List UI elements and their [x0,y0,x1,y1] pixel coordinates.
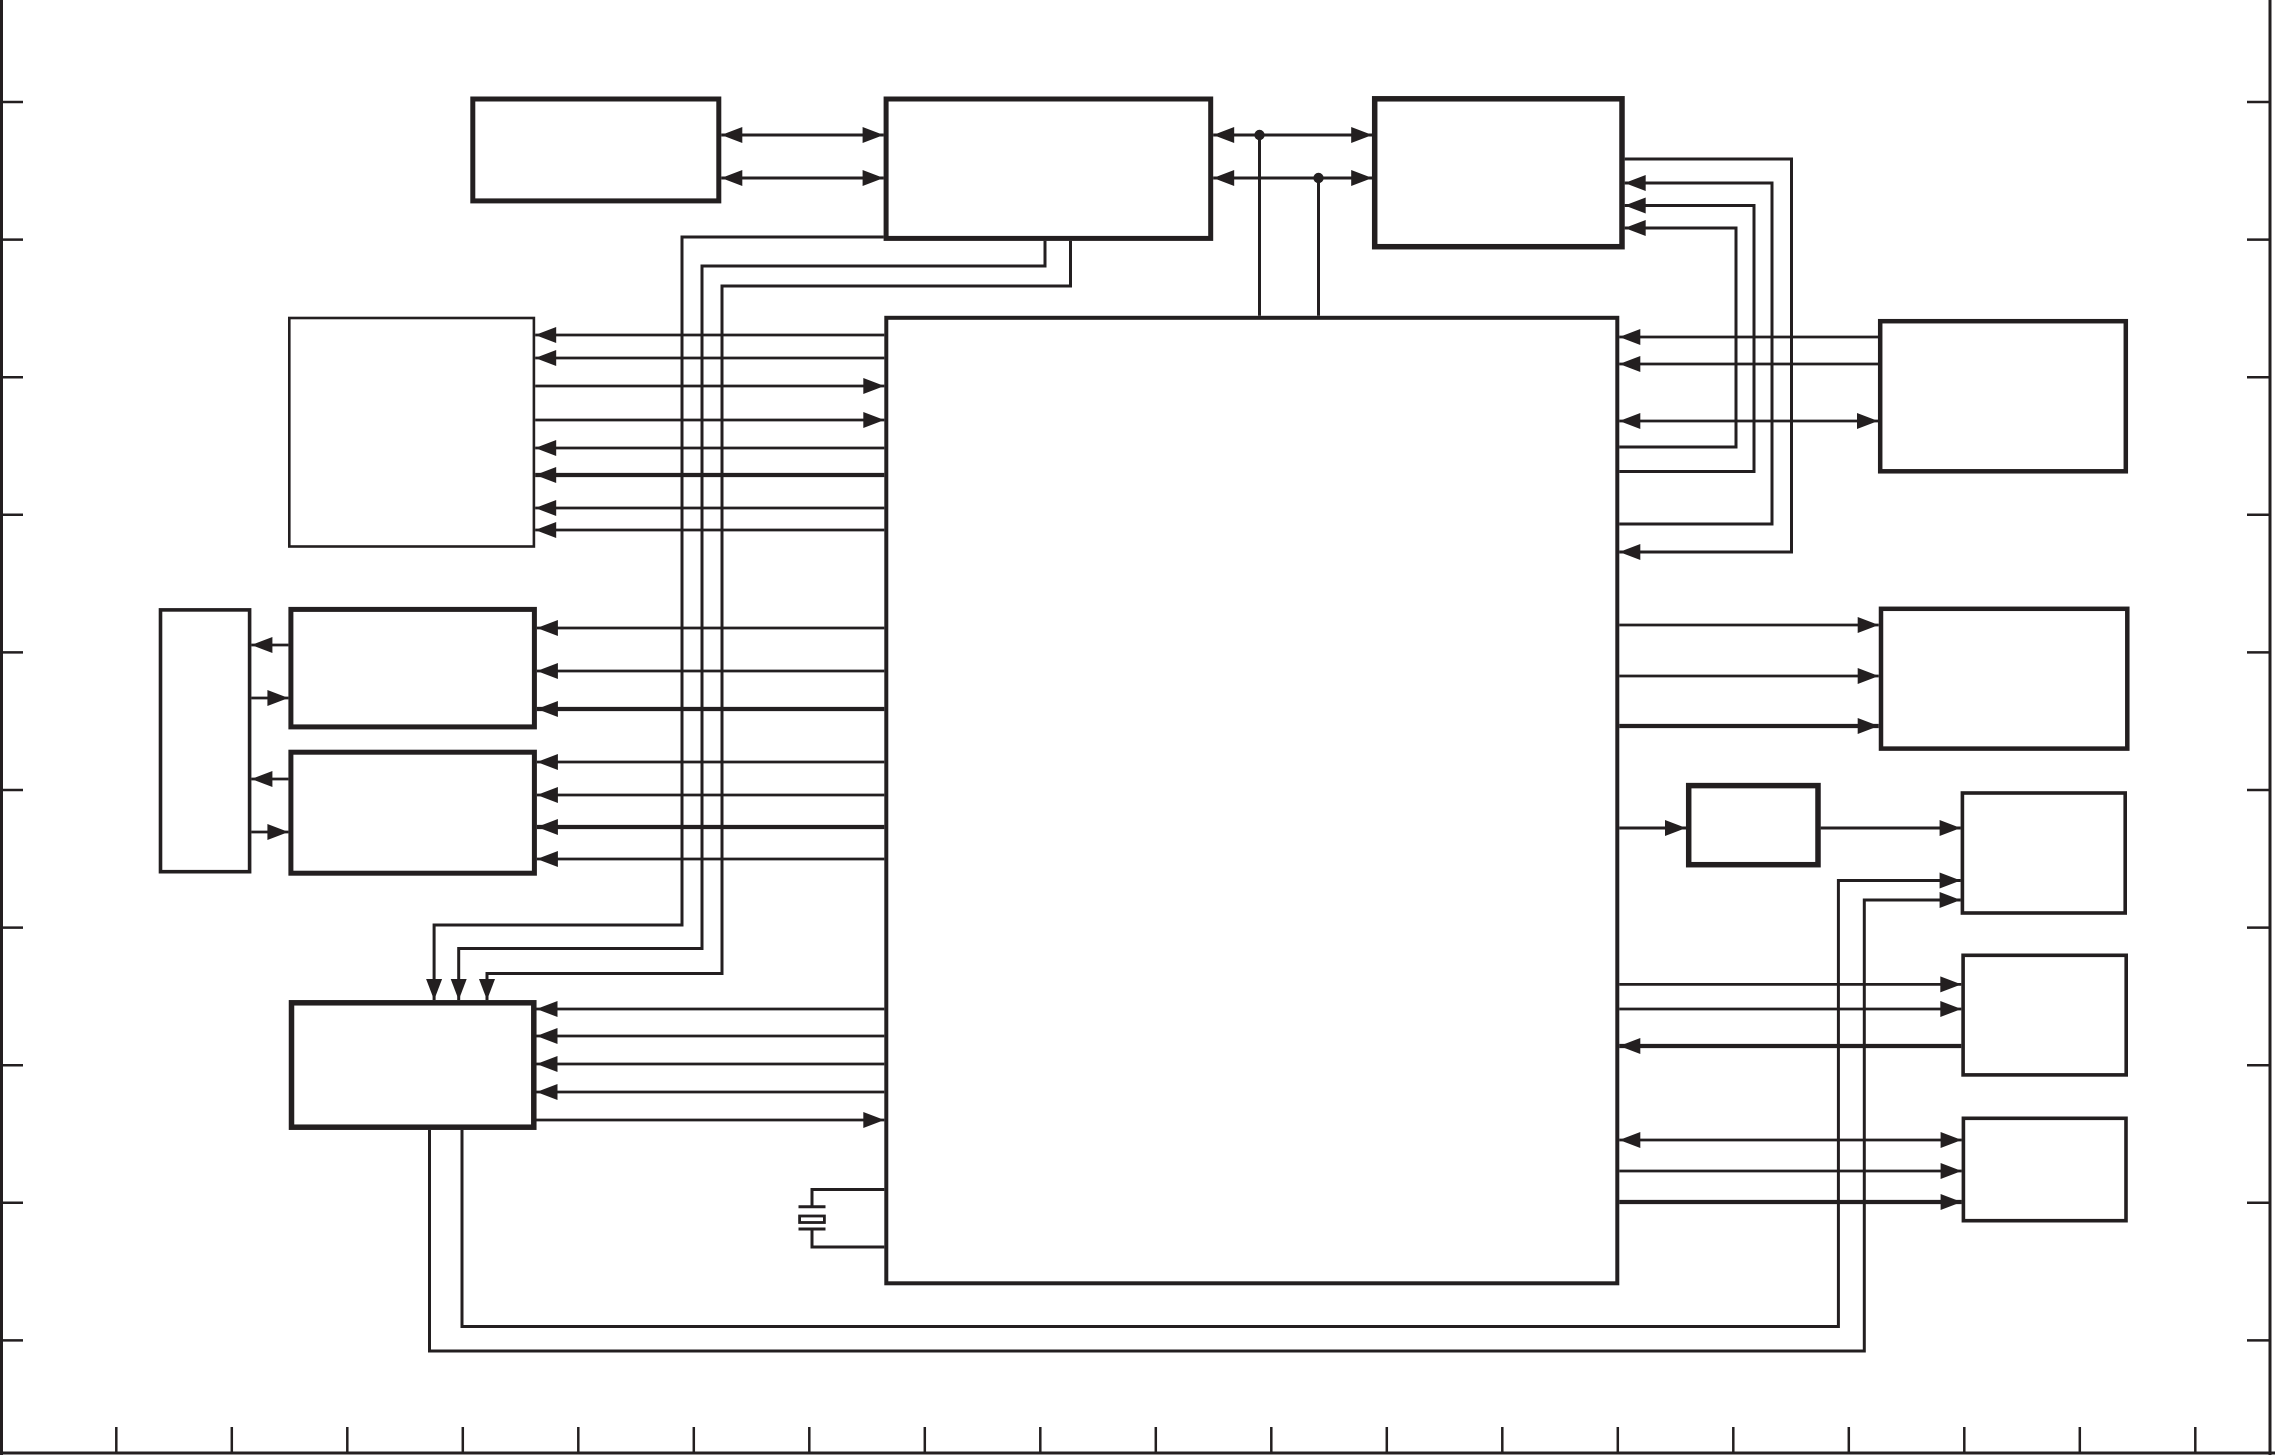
wire L4 to main y1120 [537,1119,885,1122]
wire main-L4 y1036 [537,1035,885,1038]
crystal X1 body [800,1216,825,1223]
wire stair C box2 to L4 [487,241,1071,1000]
block U1 main IC (center) [886,318,1617,1284]
wire R4 to main y1046 [1619,1044,1961,1048]
wire bus1 drop to main box [1258,135,1261,316]
wire main-L3 y762 [537,761,884,764]
wire main-R2 y726 [1619,724,1878,728]
wire bus1 box2-box3 [1213,134,1372,137]
frame right tick marks [2247,102,2271,1340]
wire stair A box2 to L4 [434,237,883,1000]
wire S3-R3 y828 [1821,827,1961,830]
wire main-R4 y984 [1619,983,1961,986]
frame left border line [0,0,3,1455]
wire main-R4 y1009 [1619,1008,1961,1011]
block box2 (top-center) [886,99,1211,238]
wire loop L4-R3 inner [462,881,1961,1327]
block L3 (left middle lower) [291,752,535,873]
wire bus1 box1-box2 [721,134,883,137]
wire feedback f4 box3 to main [1619,159,1791,552]
wire bus2 drop to main box [1317,178,1320,316]
wire R1 to main y364 [1619,363,1878,366]
block box3 (top-right) [1375,99,1622,247]
wire main-S3 y828 [1619,827,1686,830]
wire feedback f2 main to box3 [1619,206,1754,472]
wire R1 to main y337 [1619,336,1878,339]
block box1 (top-left) [473,99,719,201]
wire S2-L3 y832 [251,831,288,834]
wire main-L1 y335 [535,334,884,337]
wire stair B box2 to L4 [459,241,1045,1000]
wire main-L1 y508 [535,507,884,510]
crystal X1 bottom plate [799,1228,826,1231]
wire loop L4-R3 outer [430,900,1961,1351]
wire main-R5 bidir y1140 [1619,1139,1961,1142]
wire main-L4 y1009 [537,1008,885,1011]
block L4 (bottom-left) [292,1003,534,1127]
wire main-L4 y1092 [537,1091,885,1094]
wire S2-L2 y698 [251,697,288,700]
wire L3-S2 y779 [251,778,288,781]
wire main-L2 y671 [537,670,884,673]
junction dot on bus2 [1313,173,1323,183]
wire bus2 box2-box3 [1213,177,1372,180]
frame right border line [2269,0,2272,1455]
block L2 (left middle upper) [291,609,535,727]
wire main-L1 y386 [535,385,884,388]
wire main-L1 y530 [535,529,884,532]
wire bus2 box1-box2 [721,177,883,180]
block L1 (left large) [289,318,534,547]
wire main-L3 y859 [537,858,884,861]
wire main-R2 y676 [1619,675,1878,678]
wire main-R5 y1171 [1619,1170,1961,1173]
wire main-L1 y358 [535,357,884,360]
wire main-L2 y628 [537,627,884,630]
wire main-R2 y625 [1619,624,1878,627]
crystal X1 top plate [799,1205,826,1208]
block S3 (small right) [1689,786,1818,865]
wire main-L2 y709 [537,707,884,711]
wire feedback f3 main to box3 [1619,183,1772,524]
block R3 (right middle) [1962,793,2125,913]
wire main-L4 y1064 [537,1063,885,1066]
wire crystal bottom lead [812,1229,884,1247]
wire main-L1 y448 [535,447,884,450]
wire main-L1 y475 [535,473,884,477]
block R1 (right top) [1880,321,2126,471]
wire main-L3 y827 [537,825,884,829]
wire feedback f1 main to box3 [1619,228,1736,447]
block R2 (right upper-middle) [1881,609,2127,749]
block R5 (right bottom) [1963,1118,2126,1220]
wire main-L3 y795 [537,794,884,797]
block R4 (right lower-middle) [1963,955,2126,1075]
frame left tick marks [0,102,23,1340]
wire main-R5 y1202 [1619,1200,1961,1204]
wire main-L1 y420 [535,419,884,422]
junction dot on bus1 [1254,130,1264,140]
frame bottom tick marks [116,1427,2195,1453]
wire L2-S2 y645 [251,644,288,647]
frame bottom border line [0,1452,2275,1455]
block S2 (far-left tall) [161,610,250,872]
wire crystal top lead [812,1190,884,1207]
wire main-R1 bidir y421 [1619,420,1878,423]
